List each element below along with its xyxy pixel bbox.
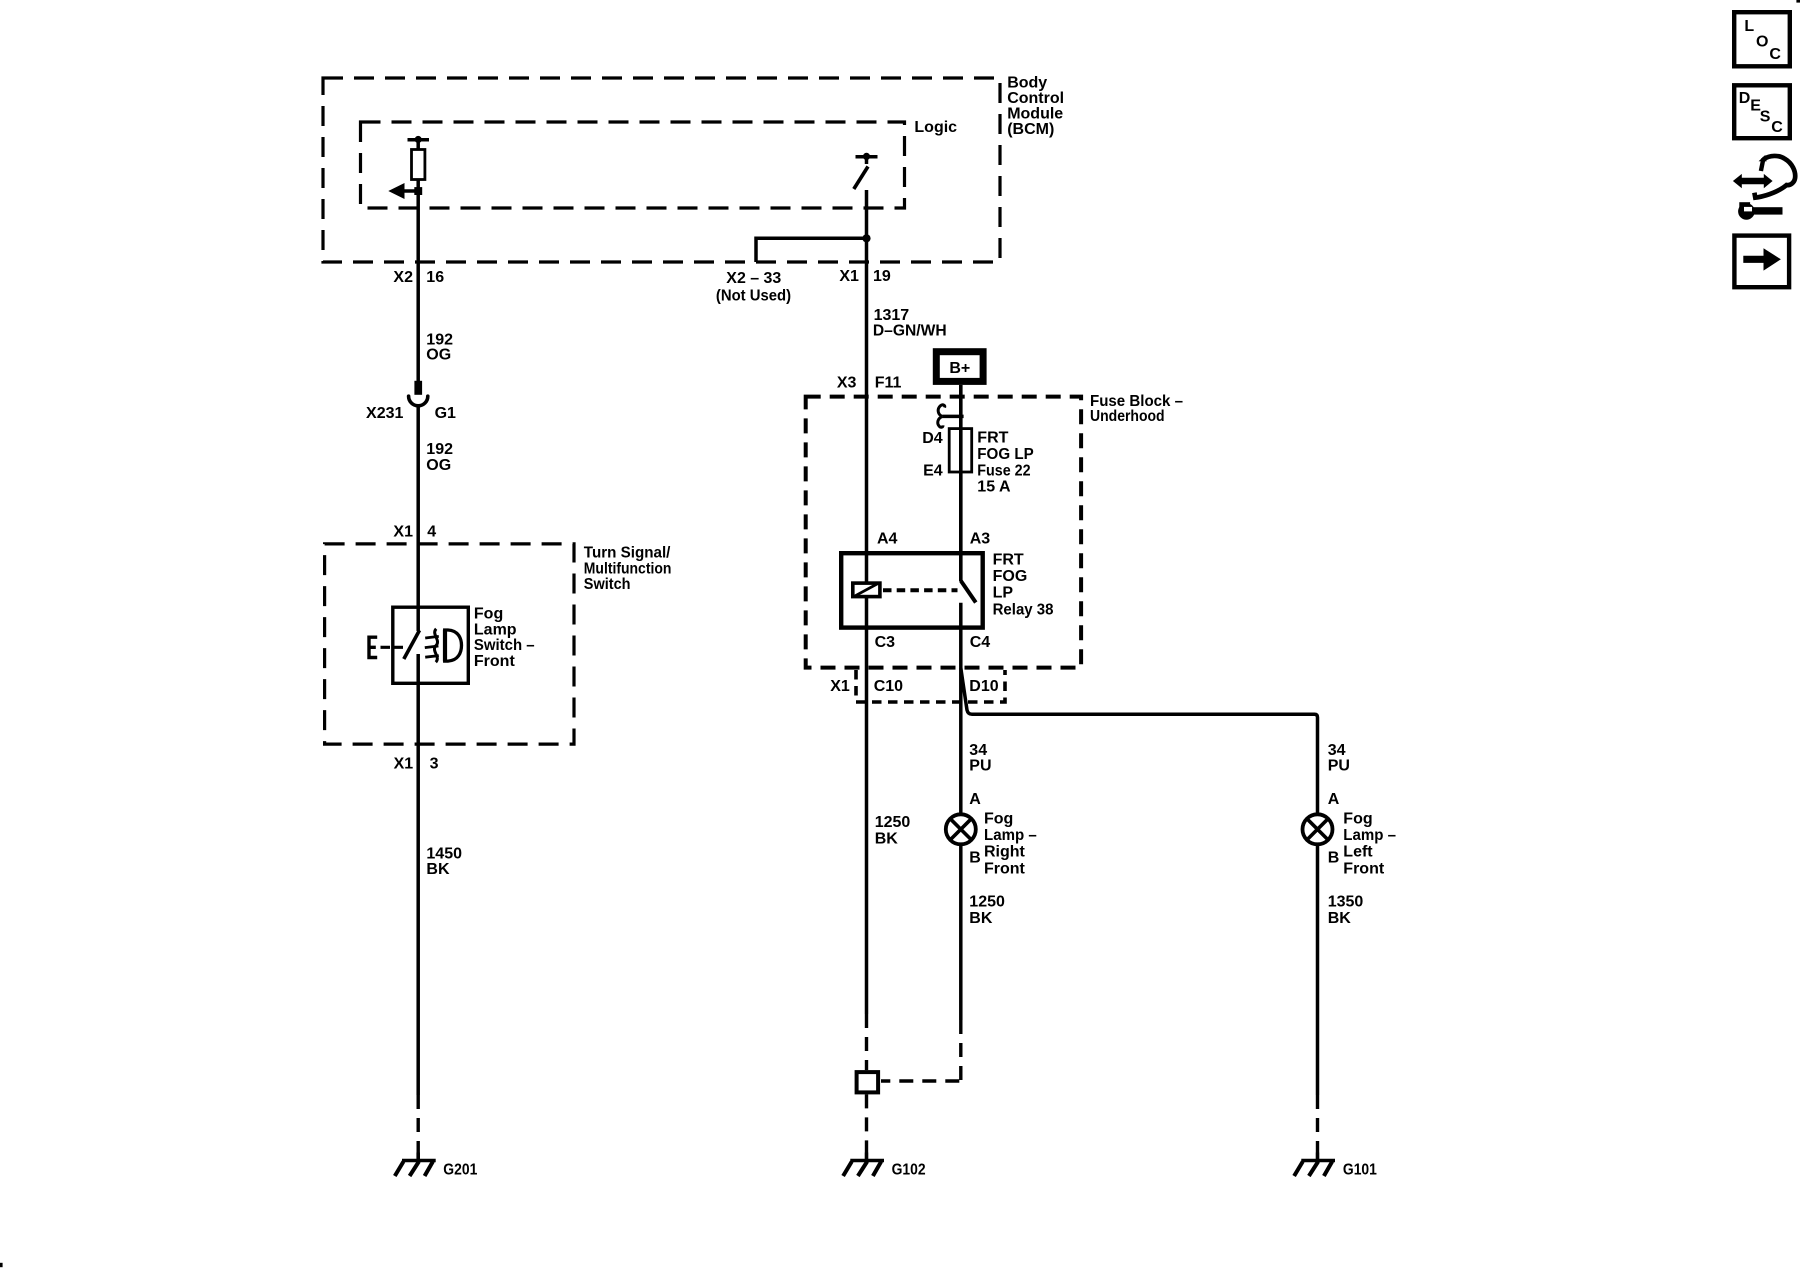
svg-text:Front: Front (984, 860, 1026, 877)
svg-text:D: D (1739, 90, 1751, 107)
svg-text:B: B (1328, 850, 1340, 867)
svg-text:Front: Front (1343, 860, 1385, 877)
svg-text:Lamp: Lamp (474, 621, 517, 638)
svg-text:Lamp –: Lamp – (1343, 827, 1396, 844)
svg-text:O: O (1756, 33, 1768, 50)
svg-text:A3: A3 (970, 530, 991, 547)
svg-text:4: 4 (427, 524, 436, 541)
svg-text:X2 – 33: X2 – 33 (726, 270, 781, 287)
svg-text:LP: LP (993, 585, 1014, 602)
svg-text:X3: X3 (837, 375, 857, 392)
svg-text:FOG LP: FOG LP (977, 446, 1034, 463)
svg-text:C: C (1769, 46, 1781, 63)
svg-text:Relay 38: Relay 38 (993, 601, 1054, 618)
svg-text:Fuse 22: Fuse 22 (977, 462, 1030, 479)
svg-text:A4: A4 (877, 530, 898, 547)
svg-text:34: 34 (1328, 742, 1346, 759)
svg-text:OG: OG (426, 347, 451, 364)
svg-text:D–GN/WH: D–GN/WH (873, 322, 947, 339)
svg-text:Front: Front (474, 653, 516, 670)
svg-text:B: B (969, 850, 981, 867)
svg-text:Right: Right (984, 844, 1026, 861)
svg-text:X1: X1 (839, 268, 859, 285)
svg-text:1250: 1250 (875, 814, 911, 831)
svg-text:B+: B+ (949, 360, 970, 377)
svg-text:BK: BK (426, 861, 450, 878)
svg-text:Left: Left (1343, 844, 1373, 861)
svg-text:BK: BK (969, 910, 993, 927)
svg-text:L: L (1744, 18, 1754, 35)
svg-text:Turn Signal/: Turn Signal/ (584, 545, 671, 562)
svg-text:3: 3 (430, 756, 439, 773)
svg-text:34: 34 (969, 742, 987, 759)
svg-text:1250: 1250 (969, 894, 1005, 911)
svg-text:G102: G102 (892, 1161, 926, 1178)
svg-text:(Not Used): (Not Used) (716, 287, 791, 304)
svg-text:X231: X231 (366, 405, 403, 422)
svg-text:C: C (1771, 119, 1783, 136)
svg-text:Lamp –: Lamp – (984, 827, 1037, 844)
svg-text:A: A (969, 791, 981, 808)
svg-text:C10: C10 (874, 678, 903, 695)
svg-text:1450: 1450 (426, 845, 462, 862)
svg-text:C3: C3 (875, 634, 896, 651)
svg-text:X1: X1 (393, 524, 413, 541)
svg-text:Underhood: Underhood (1090, 408, 1165, 425)
svg-text:OG: OG (426, 457, 451, 474)
svg-text:19: 19 (873, 268, 891, 285)
svg-text:D10: D10 (969, 678, 998, 695)
svg-text:Module: Module (1007, 106, 1063, 123)
svg-text:(BCM): (BCM) (1007, 121, 1054, 138)
svg-text:X1: X1 (830, 678, 850, 695)
svg-text:G1: G1 (435, 405, 456, 422)
svg-text:X1: X1 (394, 756, 414, 773)
svg-text:BK: BK (875, 831, 899, 848)
svg-text:Fog: Fog (1343, 810, 1372, 827)
svg-text:Body: Body (1007, 75, 1047, 92)
svg-text:16: 16 (426, 269, 444, 286)
svg-text:E4: E4 (923, 463, 943, 480)
svg-text:Logic: Logic (914, 119, 957, 136)
svg-text:Control: Control (1007, 90, 1064, 107)
svg-text:Fog: Fog (474, 606, 503, 623)
svg-text:15 A: 15 A (977, 478, 1011, 495)
svg-text:Multifunction: Multifunction (584, 560, 672, 577)
svg-text:Switch –: Switch – (474, 637, 535, 654)
svg-text:Fog: Fog (984, 810, 1013, 827)
svg-text:D4: D4 (922, 430, 943, 447)
svg-text:192: 192 (426, 441, 453, 458)
svg-text:C4: C4 (970, 634, 991, 651)
svg-text:Switch: Switch (584, 576, 631, 593)
svg-text:BK: BK (1328, 910, 1352, 927)
svg-text:FRT: FRT (993, 552, 1024, 569)
svg-text:PU: PU (1328, 758, 1350, 775)
svg-text:G201: G201 (443, 1161, 477, 1178)
svg-text:PU: PU (969, 758, 991, 775)
svg-text:F11: F11 (875, 375, 902, 392)
svg-text:G101: G101 (1343, 1161, 1377, 1178)
svg-text:FRT: FRT (977, 430, 1008, 447)
svg-text:1350: 1350 (1328, 894, 1364, 911)
svg-text:A: A (1328, 791, 1340, 808)
svg-text:1317: 1317 (874, 307, 910, 324)
svg-text:FOG: FOG (993, 568, 1028, 585)
svg-text:S: S (1760, 109, 1771, 126)
svg-text:X2: X2 (393, 269, 413, 286)
